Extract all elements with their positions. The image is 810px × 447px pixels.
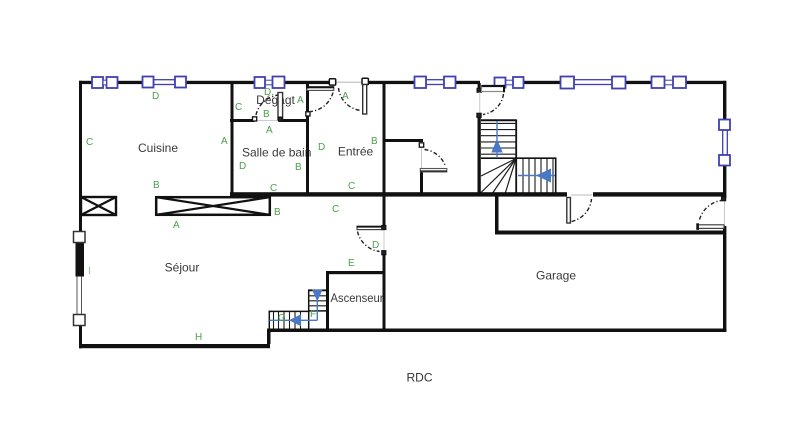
wall middle long (230, 192, 567, 196)
svg-text:B: B (371, 136, 378, 147)
wall degagt bottom right (279, 119, 310, 122)
wall ascenseur top (326, 271, 385, 274)
door D ascenseur corridor leaf (357, 226, 384, 230)
svg-text:H: H (195, 332, 202, 343)
svg-text:Ascenseur: Ascenseur (331, 291, 384, 305)
wall right lower (723, 226, 726, 332)
svg-text:A: A (173, 220, 180, 231)
stairs door arc (483, 94, 504, 115)
wall sejour bottom (79, 344, 270, 348)
svg-text:I: I (88, 266, 91, 277)
kitchen counter small x-box (81, 197, 116, 215)
svg-text:A: A (221, 136, 228, 147)
wall closet vertical (420, 172, 423, 193)
entrance left hinge square (329, 79, 335, 85)
svg-text:C: C (348, 181, 355, 192)
stairs winder fan (481, 159, 516, 195)
svg-text:C: C (235, 102, 242, 113)
garage hall door leaf (567, 198, 571, 224)
window C degagt (255, 77, 285, 89)
svg-text:C: C (86, 137, 93, 148)
door D opening line (383, 230, 385, 251)
window F garage hall (561, 77, 626, 89)
svg-text:B: B (274, 207, 281, 218)
svg-text:RDC: RDC (407, 371, 433, 385)
garage right door arc (700, 201, 722, 220)
stairs F (near Ascenseur) (308, 290, 327, 329)
wall top (79, 81, 726, 84)
wall garage left (495, 197, 499, 232)
svg-text:F: F (310, 309, 316, 320)
closet door arc (425, 150, 446, 167)
wall entree right lower (383, 253, 386, 331)
closet door corner square (419, 143, 423, 147)
stairs door hinge square (477, 88, 481, 92)
garage right door opening line (724, 200, 726, 224)
stairs F arrow down (312, 290, 323, 321)
svg-text:Garage: Garage (536, 268, 576, 282)
wall left (79, 81, 82, 349)
wall middle right (593, 192, 726, 196)
wall degagt bottom left (230, 119, 255, 122)
stairs G arrow left (270, 314, 318, 326)
svg-text:D: D (318, 142, 325, 153)
entrance left end square (306, 112, 310, 116)
door degagt leaf (278, 93, 283, 120)
svg-text:Entrée: Entrée (338, 144, 374, 158)
window D entree (415, 77, 456, 89)
entrance right arc (339, 88, 361, 111)
door D hinge square (382, 225, 386, 229)
stairs main lower flight (517, 158, 557, 193)
svg-text:Séjour: Séjour (165, 261, 200, 275)
counter big x-box (156, 197, 270, 215)
closet door opening line (421, 148, 423, 168)
door degagt arc (256, 95, 279, 115)
svg-text:D: D (239, 161, 246, 172)
svg-text:B: B (295, 162, 302, 173)
entrance left arc (311, 93, 334, 112)
wall ascenseur left (326, 274, 329, 329)
window pair A cuisine (92, 77, 118, 88)
closet door leaf (420, 169, 447, 173)
entrance right hinge square (362, 78, 368, 84)
stairs arrow left (518, 169, 555, 183)
svg-text:B: B (153, 180, 160, 191)
svg-text:D: D (372, 240, 379, 251)
door D arc (358, 232, 380, 252)
garage hall door opening line (571, 194, 592, 196)
svg-text:G: G (278, 313, 286, 324)
wall sdb entree divider (306, 84, 309, 193)
svg-text:B: B (263, 109, 270, 120)
svg-text:D.: D. (264, 87, 274, 98)
wall garage top (495, 231, 726, 235)
wall sejour step (267, 330, 271, 344)
window B cuisine (143, 77, 187, 88)
window pair E stairs (495, 77, 524, 88)
wall stairs left (478, 117, 481, 193)
stairs arrow up (491, 121, 502, 158)
svg-text:D: D (152, 91, 159, 102)
window I sejour left wall (74, 232, 86, 326)
garage hall door arc (572, 199, 592, 222)
wall right upper (723, 81, 726, 198)
door degagt: opening line (255, 120, 279, 122)
door degagt hinge square (278, 117, 282, 121)
door D end square (382, 251, 386, 255)
wall closet top (383, 139, 423, 142)
wall garage bottom (267, 329, 726, 333)
svg-text:C: C (332, 204, 339, 215)
svg-text:A: A (297, 95, 304, 106)
svg-text:Salle de bain: Salle de bain (242, 146, 311, 160)
stairs door stub (478, 83, 481, 90)
stairs main upper flight (481, 120, 517, 194)
window pair G right (652, 77, 687, 89)
garage right door leaf (696, 223, 724, 230)
wall cuisine divider (231, 84, 234, 196)
svg-text:A: A (266, 125, 273, 136)
svg-text:A: A (342, 91, 349, 102)
stairs door opening line (479, 92, 481, 113)
svg-text:C: C (270, 183, 277, 194)
stairs G (269, 311, 308, 330)
entrance door opening line (335, 81, 363, 83)
window H right wall (719, 120, 730, 166)
svg-text:Cuisine: Cuisine (138, 141, 178, 155)
door degagt end square (253, 117, 257, 121)
stairs door end square (477, 113, 481, 117)
entrance right leaf (363, 85, 367, 115)
svg-text:E: E (348, 258, 355, 269)
entrance left leaf (306, 83, 334, 90)
wall entree right upper (383, 84, 386, 227)
garage right door end square (722, 197, 726, 201)
stairs door leaf (482, 85, 506, 92)
